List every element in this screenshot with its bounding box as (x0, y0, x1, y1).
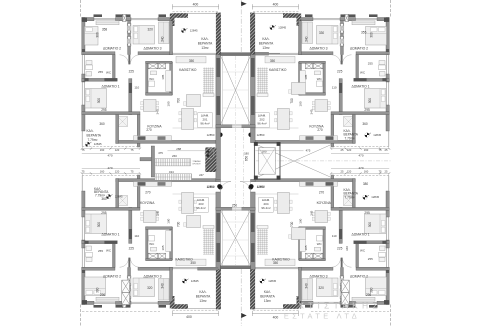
apartment BR wall wc west (356, 243, 359, 268)
svg-text:ΚΑΛ.: ΚΑΛ. (87, 129, 94, 133)
svg-text:96.4m²: 96.4m² (261, 206, 270, 210)
svg-text:400: 400 (273, 316, 279, 320)
apartment TL core wall veranda pillar (216, 13, 221, 55)
apartment TL wall room1 north (82, 78, 118, 81)
core wall dark segment g (251, 213, 255, 232)
apartment BL wall bedrooms south R (138, 267, 173, 270)
apartment BR veranda roof dashes (252, 309, 298, 311)
svg-text:105: 105 (161, 74, 165, 79)
apartment BL veranda pillar top (173, 304, 189, 309)
svg-text:12845: 12845 (278, 25, 286, 29)
svg-text:470: 470 (107, 154, 112, 158)
apartment BR left wall window (388, 248, 390, 268)
center axis flag top (240, 0, 242, 53)
svg-text:300: 300 (368, 222, 372, 228)
apartment BL marker 12845 side (106, 194, 123, 199)
apartment TR outer wall left (386, 18, 389, 55)
apartment TL apartment id (198, 113, 212, 128)
apartment TL wall wc2 north (146, 61, 172, 63)
apartment TR corner pillar living NW (297, 14, 302, 27)
svg-text:350: 350 (189, 59, 195, 63)
apartment TR veranda edge line (252, 13, 298, 15)
svg-text:255: 255 (98, 249, 103, 253)
svg-text:250: 250 (232, 203, 238, 207)
apartment TL kitchen sink (138, 136, 146, 140)
svg-text:110: 110 (332, 85, 337, 89)
apartment TL wall living west lower (170, 62, 173, 95)
apartment TR wall room1 north dark a (382, 78, 386, 81)
core south wall wing west (198, 267, 219, 270)
apartment TL corner pillar NW (82, 18, 87, 22)
svg-text:225: 225 (337, 69, 343, 73)
svg-text:ΧΤΙΣΤΑΚΗΣ: ΧΤΙΣΤΑΚΗΣ (298, 301, 382, 311)
apartment BL kitchen counter (134, 182, 172, 187)
core axis line (235, 56, 237, 265)
svg-text:300: 300 (97, 98, 101, 104)
svg-text:13m²: 13m² (264, 299, 271, 303)
svg-text:300: 300 (369, 287, 373, 293)
svg-text:12845: 12845 (191, 279, 199, 283)
apartment BR wall room1 north dark a (382, 241, 386, 244)
apartment TR wall room1 east dark (339, 83, 342, 93)
svg-text:380: 380 (363, 182, 369, 186)
apartment BL wall room1 east (129, 207, 132, 243)
svg-text:WC: WC (106, 71, 112, 75)
apartment TR wall kitchen west lower (352, 115, 355, 144)
apartment BL wall kitchen south (116, 179, 216, 182)
apartment BL tv unit grid (203, 229, 214, 255)
svg-text:350: 350 (190, 261, 196, 265)
svg-text:110: 110 (134, 85, 139, 89)
apartment BR wardrobe bedroom A (352, 297, 375, 301)
svg-text:12850: 12850 (207, 184, 215, 188)
apartment TL wardrobe bedroom B (159, 22, 170, 44)
apartment BR marker 12845 side (363, 195, 380, 200)
apartment BR left wall dark seg a (386, 267, 389, 273)
apartment TR marker 12845 veranda (270, 25, 287, 30)
apartment TR wall wc west (356, 55, 359, 80)
apartment TL closet xbox b (159, 63, 166, 69)
apartment BR dim row line (331, 172, 389, 174)
svg-text:350: 350 (270, 59, 276, 63)
svg-text:255: 255 (98, 70, 103, 74)
apartment BR wardrobe bedroom B (302, 279, 313, 301)
svg-text:296: 296 (100, 293, 106, 297)
svg-text:470: 470 (107, 166, 112, 170)
apartment TL wall living west (170, 21, 173, 55)
apartment TR left wall dark seg b (386, 105, 389, 115)
svg-text:190: 190 (166, 101, 170, 106)
svg-text:WC: WC (360, 249, 366, 253)
apartment BL closet xbox a (148, 253, 158, 259)
svg-text:105: 105 (304, 245, 308, 250)
apartment BR wall living west (299, 267, 302, 301)
apartment BR bed bedroom B (317, 278, 339, 297)
svg-text:75: 75 (82, 170, 85, 174)
apartment BL outer wall top seg2 (116, 301, 132, 304)
lower shaft top wall (216, 207, 255, 210)
svg-text:ΚΑΛ.: ΚΑΛ. (264, 290, 271, 294)
apartment TL wall room1 north dark a (84, 78, 88, 81)
svg-text:ΔΩΜΑΤΙΟ 3: ΔΩΜΑΤΙΟ 3 (309, 47, 327, 51)
corridor marker west (217, 184, 222, 189)
dim line top right 400 (252, 6, 298, 8)
core wall dark segment a (216, 58, 220, 77)
apartment BL veranda roof dashes (173, 309, 219, 311)
apartment BL outer wall left (82, 268, 85, 305)
apartment TR pillar bedroom divider b (340, 37, 344, 47)
apartment TR kitchen sink (326, 136, 334, 140)
svg-text:160: 160 (100, 148, 105, 152)
svg-text:ΔΩΜΑΤΙΟ 3: ΔΩΜΑΤΙΟ 3 (309, 275, 327, 279)
apartment TL door post divider (128, 55, 130, 65)
apartment TR marker 12845 side (365, 133, 382, 138)
apartment TR wc sink (380, 72, 386, 77)
svg-text:75: 75 (82, 148, 85, 152)
core wall west link (216, 128, 221, 180)
svg-text:ΔΩΜΑΤΙΟ 1: ΔΩΜΑΤΙΟ 1 (351, 233, 369, 237)
apartment BL window bedroom B (131, 303, 158, 305)
apartment BR pillar bedroom divider b (340, 276, 344, 286)
elevator corner pillar se (277, 176, 281, 180)
apartment TR wc2 bathtub (300, 71, 306, 92)
apartment BL wall bedrooms south L (82, 267, 115, 270)
svg-text:ΔΩΜΑΤΙΟ 1: ΔΩΜΑΤΙΟ 1 (101, 233, 119, 237)
svg-text:7.79m²: 7.79m² (345, 195, 355, 199)
apartment TR marker 12850 core (248, 133, 264, 138)
apartment TR window bedroom B (313, 17, 340, 19)
svg-text:255: 255 (368, 257, 373, 261)
apartment BR outer wall top seg2 (340, 301, 356, 304)
apartment BL long dining table (182, 193, 194, 214)
apartment TL wall room1 east (129, 79, 132, 115)
apartment BR outer wall left (386, 268, 389, 305)
apartment BL tv unit sill (203, 226, 214, 229)
svg-text:475: 475 (306, 149, 311, 153)
apartment TR kitchen stove (306, 136, 314, 140)
svg-text:400: 400 (273, 2, 279, 6)
svg-text:360: 360 (362, 122, 368, 126)
apartment TR shutter bar 3 (341, 14, 346, 17)
lower shaft rungs (223, 221, 249, 223)
svg-text:320: 320 (319, 286, 325, 290)
apartment TR closet xbox a (313, 63, 323, 69)
elevator outer box (255, 143, 281, 180)
svg-text:190: 190 (299, 101, 303, 106)
apartment BL left wall dark seg a (82, 267, 85, 273)
apartment BL shutter bar 3 (126, 305, 131, 308)
apartment BR bed bedroom A (366, 277, 387, 296)
apartment TR closet xbox b (305, 63, 312, 69)
svg-text:190: 190 (299, 218, 303, 223)
svg-text:360: 360 (101, 197, 107, 201)
stair flight lower treads (155, 174, 192, 180)
svg-text:400: 400 (193, 2, 199, 6)
core wall dark segment c (251, 58, 255, 77)
svg-text:400: 400 (186, 315, 192, 319)
apartment BR kitchen counter (300, 182, 338, 187)
apartment BL veranda edge line (173, 307, 219, 309)
elevator corner pillar sw (254, 176, 258, 180)
upper shaft door (232, 125, 241, 128)
apartment TL door bedroom B (130, 55, 139, 64)
apartment BL shutter bar 4 (159, 305, 167, 308)
apartment BL left wall dark seg b (82, 208, 85, 218)
svg-text:470: 470 (358, 166, 363, 170)
apartment BL wc2 toilet (149, 236, 155, 242)
svg-text:ΔΩΜΑΤΙΟ 2: ΔΩΜΑΤΙΟ 2 (350, 47, 368, 51)
right void X brace (256, 144, 333, 178)
stair west wall (151, 146, 154, 177)
apartment TR wc2 sink (315, 71, 321, 75)
svg-text:ΕΣΤΑΤΕ ΛΤΔ: ΕΣΤΑΤΕ ΛΤΔ (284, 312, 360, 321)
apartment TR long dining table (277, 109, 289, 130)
apartment BR wall kitchen south (255, 179, 355, 182)
apartment TL left wall window room1 (81, 82, 83, 105)
apartment BL pillar bedroom divider top (123, 301, 127, 308)
apartment BR window bedroom A (356, 303, 378, 305)
apartment TL left wall window (81, 55, 83, 75)
svg-text:120: 120 (347, 148, 352, 152)
apartment BR outer wall top seg1 (377, 301, 389, 304)
apartment BR corner pillar NW (384, 300, 389, 304)
apartment BL corner pillar living NW (170, 296, 175, 309)
core wall west (216, 55, 221, 128)
center axis flag bottom (240, 269, 242, 326)
dim line bottom right 400 (252, 312, 298, 314)
axis line top right (390, 0, 392, 18)
svg-text:75: 75 (131, 148, 134, 152)
corridor axis line (243, 129, 245, 207)
apartment TR kitchen table (315, 100, 328, 112)
apartment BR laundry box (344, 196, 354, 206)
apartment TL long dining table (182, 109, 194, 130)
apartment TL veranda rail left (81, 131, 83, 147)
svg-text:ΚΑΘΙΣΤΙΚΟ: ΚΑΘΙΣΤΙΚΟ (179, 68, 197, 72)
core wall dark segment h (251, 243, 255, 262)
apartment BL core wall veranda pillar (216, 268, 221, 310)
apartment BL wall room1 north dark a (84, 241, 88, 244)
svg-text:295: 295 (101, 211, 107, 215)
apartment BL wc toilet (86, 252, 93, 261)
apartment BR door post divider (341, 258, 343, 268)
roof dash bottom (82, 311, 160, 313)
apartment TL shutter bar 1 (94, 14, 103, 17)
svg-text:270: 270 (145, 191, 151, 195)
svg-text:700: 700 (290, 98, 294, 104)
apartment TL dim row line (82, 148, 140, 150)
apartment TL kitchen counter (134, 136, 172, 141)
svg-text:700: 700 (177, 222, 181, 228)
stair hatch wall (205, 147, 216, 172)
apartment BL wardrobe bedroom A (96, 297, 119, 301)
svg-text:160: 160 (364, 148, 369, 152)
apartment BL window bedroom A (94, 303, 116, 305)
apartment TR sofa (265, 56, 295, 63)
apartment TR wall room1 north dark b (354, 78, 367, 81)
apartment BR side veranda dash (331, 174, 389, 176)
apartment BL side veranda dash (82, 174, 140, 176)
core wall east lower (251, 192, 256, 270)
svg-text:ΔΩΜΑΤΙΟ 3: ΔΩΜΑΤΙΟ 3 (143, 47, 161, 51)
apartment TR door bedroom B (331, 55, 340, 64)
svg-text:ΔΩΜΑΤΙΟ 1: ΔΩΜΑΤΙΟ 1 (101, 85, 119, 89)
apartment TR dim row line (331, 148, 389, 150)
svg-text:ΚΟΥΖΙΝΑ: ΚΟΥΖΙΝΑ (140, 201, 155, 205)
apartment TL shutter bar 3 (126, 14, 131, 17)
apartment TR veranda pillar top (283, 13, 299, 18)
apartment BL kitchen stove (158, 182, 166, 186)
svg-text:358: 358 (102, 28, 108, 32)
apartment TL dining table (187, 95, 201, 107)
apartment BL wall living west (170, 267, 173, 301)
apartment TR side veranda dash (331, 146, 389, 148)
apartment TL veranda pillar top (173, 13, 189, 18)
apartment TL outer wall top seg2 (116, 18, 132, 21)
apartment BL door bedroom A (120, 258, 129, 267)
apartment BR marker 12850 core (248, 185, 264, 190)
apartment TL shutter bar 4 (159, 14, 167, 17)
apartment TR tv unit grid (257, 68, 268, 94)
svg-text:225: 225 (337, 247, 343, 251)
core wall dark segment e (216, 213, 220, 232)
svg-text:12845: 12845 (94, 142, 102, 146)
svg-text:247: 247 (199, 173, 204, 177)
apartment TL pillar bedroom divider top (123, 14, 127, 21)
core wall east (251, 55, 256, 128)
svg-text:12845: 12845 (373, 133, 381, 137)
stair flight upper treads (155, 159, 191, 166)
svg-text:225: 225 (129, 69, 135, 73)
svg-text:ΔΩΜΑΤΙΟ 2: ΔΩΜΑΤΙΟ 2 (103, 47, 121, 51)
apartment BL bed bedroom A (85, 277, 106, 296)
svg-text:340: 340 (345, 246, 349, 251)
apartment TR wall kitchen south (255, 140, 355, 143)
apartment BL wall living west lower (170, 227, 173, 260)
elevator corner pillar nw (254, 142, 258, 146)
mid dim line left (168, 150, 216, 152)
apartment BL bedroom divider closet (122, 292, 130, 304)
apartment BL left wall window room1 (81, 217, 83, 240)
apartment TR outer wall left lower (386, 74, 389, 82)
apartment TL side veranda dash (82, 146, 140, 148)
apartment BL kitchen sink (138, 182, 146, 186)
apartment TL door bedroom A (120, 55, 129, 64)
apartment TL wall bedrooms south R (138, 52, 173, 55)
apartment BL marker 12850 core (207, 185, 223, 190)
svg-text:288: 288 (176, 147, 181, 151)
core wall dark segment d (251, 96, 255, 115)
apartment BL wall room1 east dark (129, 229, 132, 239)
apartment TL outer wall top seg3 (158, 18, 173, 21)
svg-text:300: 300 (96, 287, 100, 293)
apartment BR sofa (265, 259, 295, 266)
apartment TR wall living west lower (299, 62, 302, 95)
svg-text:12850: 12850 (257, 133, 265, 137)
svg-text:105: 105 (161, 245, 165, 250)
apartment TL wall kitchen south (116, 140, 216, 143)
svg-text:255: 255 (368, 62, 373, 66)
upper shaft slab line (222, 56, 224, 125)
apartment BL wall bedroom divider (128, 268, 131, 302)
svg-text:25: 25 (385, 148, 388, 152)
apartment TL wall room1 south (82, 112, 140, 115)
roof dash bottom right (311, 311, 389, 313)
apartment BL apartment id (194, 197, 208, 212)
apartment BR shutter bar 1 (369, 305, 378, 308)
apartment TR corner pillar NW (384, 18, 389, 22)
apartment BL veranda rail left (81, 176, 83, 192)
apartment TL marker 12850 core (207, 133, 223, 138)
elevator corner pillar ne (277, 142, 281, 146)
apartment TL wall wc2 south (146, 93, 172, 96)
apartment TR wc2 toilet (317, 81, 323, 87)
apartment BR kitchen sink (326, 182, 334, 186)
apartment TL wc2 sink (151, 71, 157, 75)
apartment BL outer wall top seg1 (82, 301, 94, 304)
svg-text:360: 360 (99, 122, 105, 126)
apartment TR outer wall left lower2 (386, 105, 389, 131)
apartment BL wall room1 north dark b (104, 241, 117, 244)
apartment BR marker 12845 veranda (260, 279, 277, 284)
svg-text:ΚΑΛ.: ΚΑΛ. (262, 37, 269, 41)
svg-text:300: 300 (96, 32, 100, 38)
svg-text:110: 110 (332, 234, 337, 238)
apartment TR door bedroom A (343, 55, 352, 64)
svg-text:470: 470 (358, 154, 363, 158)
apartment BR wall wc2 north (299, 259, 325, 261)
apartment BL wall room1 south (82, 207, 140, 210)
apartment TL tv unit grid (203, 68, 214, 94)
apartment BR wall bedrooms south R (299, 267, 334, 270)
horizontal axis line right (256, 160, 391, 162)
apartment TR core wall veranda pillar (250, 13, 255, 55)
svg-text:434: 434 (169, 170, 174, 174)
mid dim line right (256, 150, 304, 152)
svg-text:ΒΕΡΑΝΤΑ: ΒΕΡΑΝΤΑ (198, 41, 213, 45)
apartment BL laundry box (118, 196, 128, 206)
apartment TR wall wc2 south (299, 93, 325, 96)
apartment TR wall living west (299, 21, 302, 55)
svg-text:160: 160 (100, 170, 105, 174)
corridor marker east (249, 184, 254, 189)
apartment BR tv unit sill (257, 226, 268, 229)
apartment TR left wall dark seg a (386, 49, 389, 55)
apartment BR shutter bar 4 (305, 305, 313, 308)
svg-text:ΔΩΜΑΤΙΟ 2: ΔΩΜΑΤΙΟ 2 (350, 275, 368, 279)
apartment TL wardrobe bedroom A (96, 21, 119, 25)
svg-text:ΒΕΡΑΝΤΑ: ΒΕΡΑΝΤΑ (196, 295, 211, 299)
apartment TR tv unit sill (257, 94, 268, 97)
apartment TR apartment id (255, 113, 269, 128)
apartment BL corner pillar NW (82, 300, 87, 304)
apartment BR shutter bar 3 (341, 305, 346, 308)
apartment TL tv unit sill (203, 94, 214, 97)
apartment TL wc2 bathtub (166, 71, 172, 92)
apartment BL living south window (173, 268, 217, 270)
apartment TL living south window (173, 52, 217, 54)
svg-text:12845: 12845 (190, 28, 198, 32)
apartment BL bed bedroom B (133, 278, 155, 297)
core south wall (221, 266, 251, 269)
apartment TL pillar bedroom divider a (127, 24, 131, 34)
core wall west door stub (216, 180, 221, 182)
svg-text:295: 295 (101, 108, 107, 112)
corridor door west (221, 182, 232, 193)
apartment BL closet xbox b (159, 253, 166, 259)
apartment BR veranda pillar top (283, 304, 299, 309)
apartment BR wc2 sink (315, 247, 321, 251)
